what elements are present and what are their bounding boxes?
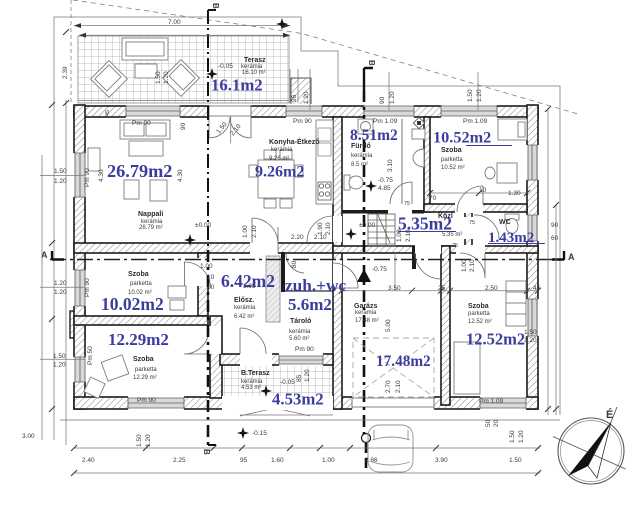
svg-text:B.Terasz: B.Terasz xyxy=(241,370,270,377)
svg-text:1.50: 1.50 xyxy=(136,434,143,447)
svg-text:90: 90 xyxy=(379,96,386,104)
svg-text:90: 90 xyxy=(180,122,187,130)
svg-text:17.48m2: 17.48m2 xyxy=(376,353,431,370)
svg-text:2.10: 2.10 xyxy=(395,380,402,393)
svg-text:Szoba: Szoba xyxy=(133,356,154,363)
svg-text:2.10: 2.10 xyxy=(405,229,412,242)
svg-text:1.00: 1.00 xyxy=(242,225,249,238)
svg-text:É: É xyxy=(606,408,613,421)
svg-text:2.50: 2.50 xyxy=(485,285,498,292)
svg-text:kerámia: kerámia xyxy=(351,153,373,159)
svg-text:Pm 90: Pm 90 xyxy=(137,397,156,404)
svg-text:3.10: 3.10 xyxy=(387,159,394,172)
svg-text:1.50: 1.50 xyxy=(155,71,162,84)
svg-text:2.40: 2.40 xyxy=(82,457,95,464)
svg-text:1.20: 1.20 xyxy=(54,280,67,287)
svg-text:Fürdő: Fürdő xyxy=(351,143,371,150)
svg-text:25: 25 xyxy=(438,285,446,292)
svg-text:Konyha-Étkező: Konyha-Étkező xyxy=(269,137,320,146)
svg-text:-0.75: -0.75 xyxy=(378,177,393,184)
svg-text:1.95: 1.95 xyxy=(243,283,256,290)
svg-text:7.00: 7.00 xyxy=(168,19,181,26)
svg-text:16.1m2: 16.1m2 xyxy=(211,76,263,95)
svg-text:2.10: 2.10 xyxy=(251,225,258,238)
svg-text:60: 60 xyxy=(551,235,559,242)
svg-text:70: 70 xyxy=(429,195,437,202)
svg-text:75: 75 xyxy=(404,201,410,207)
svg-text:±0.00: ±0.00 xyxy=(359,222,376,229)
svg-text:1.00: 1.00 xyxy=(396,229,403,242)
svg-text:kerámia: kerámia xyxy=(355,310,377,316)
svg-text:2.70: 2.70 xyxy=(385,380,392,393)
svg-text:1.00: 1.00 xyxy=(461,259,468,272)
svg-text:3.00: 3.00 xyxy=(22,433,35,440)
svg-text:B: B xyxy=(367,60,376,66)
svg-text:4.85: 4.85 xyxy=(378,185,391,192)
svg-text:Pm 90: Pm 90 xyxy=(293,118,312,125)
svg-text:2.86: 2.86 xyxy=(365,457,378,464)
svg-text:5.00: 5.00 xyxy=(385,319,392,332)
svg-text:Tároló: Tároló xyxy=(290,318,311,325)
svg-text:Elősz.: Elősz. xyxy=(234,297,254,304)
svg-text:75: 75 xyxy=(452,243,458,249)
svg-text:5.6m2: 5.6m2 xyxy=(288,295,332,314)
svg-text:kerámia: kerámia xyxy=(289,329,311,335)
svg-text:96: 96 xyxy=(291,94,298,102)
svg-text:Közl: Közl xyxy=(438,213,453,220)
svg-text:A: A xyxy=(568,252,575,262)
svg-text:±0.00: ±0.00 xyxy=(195,222,212,229)
svg-text:1.50: 1.50 xyxy=(524,329,537,336)
svg-text:Pm 1.09: Pm 1.09 xyxy=(479,398,504,405)
svg-text:1.20: 1.20 xyxy=(54,289,67,296)
svg-text:5.35 m²: 5.35 m² xyxy=(442,232,462,238)
svg-text:26.79 m²: 26.79 m² xyxy=(139,225,163,231)
svg-text:45: 45 xyxy=(533,285,541,292)
svg-text:10.52 m²: 10.52 m² xyxy=(441,165,465,171)
svg-text:-0.75: -0.75 xyxy=(372,266,387,273)
svg-text:1.90: 1.90 xyxy=(317,222,324,235)
svg-text:4.53 m²: 4.53 m² xyxy=(241,385,261,391)
svg-text:3.50: 3.50 xyxy=(388,285,401,292)
svg-text:1.20: 1.20 xyxy=(476,89,483,102)
svg-text:50: 50 xyxy=(485,419,492,427)
svg-text:1.50: 1.50 xyxy=(53,353,66,360)
svg-text:Szoba: Szoba xyxy=(441,147,462,154)
svg-text:Pm 90: Pm 90 xyxy=(295,346,314,353)
svg-text:10: 10 xyxy=(207,284,215,291)
svg-text:10.02m2: 10.02m2 xyxy=(101,294,164,314)
svg-text:4.53m2: 4.53m2 xyxy=(272,390,324,409)
svg-text:80: 80 xyxy=(291,260,298,268)
svg-text:1.50: 1.50 xyxy=(467,89,474,102)
svg-text:1.50: 1.50 xyxy=(509,457,522,464)
svg-text:1.20: 1.20 xyxy=(163,71,170,84)
svg-text:10: 10 xyxy=(479,187,487,194)
svg-text:2.20: 2.20 xyxy=(291,234,304,241)
svg-text:75: 75 xyxy=(469,220,475,226)
svg-text:1.20: 1.20 xyxy=(389,91,396,104)
svg-text:10.52m2: 10.52m2 xyxy=(433,129,491,147)
svg-text:9.26 m²: 9.26 m² xyxy=(269,156,289,162)
svg-text:Pm 1.09: Pm 1.09 xyxy=(373,118,398,125)
svg-text:5.60 m²: 5.60 m² xyxy=(289,336,309,342)
svg-text:12.52 m²: 12.52 m² xyxy=(468,319,492,325)
svg-text:parketta: parketta xyxy=(441,157,463,163)
svg-text:kerámia: kerámia xyxy=(234,305,256,311)
svg-text:8.51m2: 8.51m2 xyxy=(350,127,398,144)
svg-text:1.00: 1.00 xyxy=(200,263,213,270)
svg-text:45: 45 xyxy=(105,110,111,116)
svg-text:-0.05: -0.05 xyxy=(280,379,295,386)
svg-text:Szoba: Szoba xyxy=(128,271,149,278)
svg-text:-0.15: -0.15 xyxy=(252,430,267,437)
svg-text:1.20: 1.20 xyxy=(524,337,537,344)
svg-text:12.29 m²: 12.29 m² xyxy=(133,375,157,381)
svg-text:Terasz: Terasz xyxy=(244,57,266,64)
svg-text:95: 95 xyxy=(240,457,248,464)
svg-text:Pm 90: Pm 90 xyxy=(84,168,91,187)
svg-text:Pm 50: Pm 50 xyxy=(87,346,94,365)
svg-text:zuh.+wc: zuh.+wc xyxy=(285,276,346,295)
svg-text:parketta: parketta xyxy=(130,281,152,287)
svg-text:1.30: 1.30 xyxy=(508,190,521,197)
svg-text:Pm 90: Pm 90 xyxy=(132,120,151,127)
svg-text:WC: WC xyxy=(499,219,511,226)
svg-text:1.20: 1.20 xyxy=(54,178,67,185)
svg-text:1.20: 1.20 xyxy=(304,369,311,382)
svg-text:4.30: 4.30 xyxy=(98,169,105,182)
svg-text:Garázs: Garázs xyxy=(354,303,377,310)
svg-text:1.20: 1.20 xyxy=(303,91,310,104)
svg-text:26.79m2: 26.79m2 xyxy=(107,161,172,181)
svg-text:1.50: 1.50 xyxy=(509,430,516,443)
svg-text:2.10: 2.10 xyxy=(325,222,332,235)
svg-text:20: 20 xyxy=(493,419,500,427)
svg-text:2.39: 2.39 xyxy=(62,66,69,79)
svg-text:12.29m2: 12.29m2 xyxy=(108,330,169,349)
svg-text:85: 85 xyxy=(296,374,303,382)
svg-text:12.52m2: 12.52m2 xyxy=(466,330,525,349)
svg-text:parketta: parketta xyxy=(135,367,157,373)
svg-text:Pm 90: Pm 90 xyxy=(84,278,91,297)
svg-text:3.90: 3.90 xyxy=(435,457,448,464)
svg-text:9.26m2: 9.26m2 xyxy=(255,164,304,181)
svg-text:2.25: 2.25 xyxy=(173,457,186,464)
svg-text:1.20: 1.20 xyxy=(518,430,525,443)
svg-text:2.10: 2.10 xyxy=(469,259,476,272)
svg-text:Szoba: Szoba xyxy=(468,303,489,310)
svg-text:B: B xyxy=(202,449,211,455)
svg-text:10: 10 xyxy=(207,274,215,281)
svg-text:10.02 m²: 10.02 m² xyxy=(128,290,152,296)
svg-text:1.50: 1.50 xyxy=(54,168,67,175)
svg-text:4.30: 4.30 xyxy=(177,169,184,182)
svg-text:17.48 m²: 17.48 m² xyxy=(355,318,379,324)
svg-text:6.42 m²: 6.42 m² xyxy=(234,314,254,320)
svg-text:8.5 m²: 8.5 m² xyxy=(351,162,368,168)
svg-text:1.20: 1.20 xyxy=(145,434,152,447)
svg-text:kerámia: kerámia xyxy=(271,147,293,153)
svg-text:-0.05: -0.05 xyxy=(218,63,233,70)
svg-text:1.00: 1.00 xyxy=(322,457,335,464)
svg-text:B: B xyxy=(211,3,220,9)
svg-text:1.60: 1.60 xyxy=(271,457,284,464)
svg-text:Pm 1.09: Pm 1.09 xyxy=(463,118,488,125)
svg-text:Nappali: Nappali xyxy=(138,211,163,218)
svg-text:90: 90 xyxy=(551,222,559,229)
svg-text:1.20: 1.20 xyxy=(53,362,66,369)
svg-text:16.10 m²: 16.10 m² xyxy=(242,70,266,76)
svg-text:parketta: parketta xyxy=(468,311,490,317)
